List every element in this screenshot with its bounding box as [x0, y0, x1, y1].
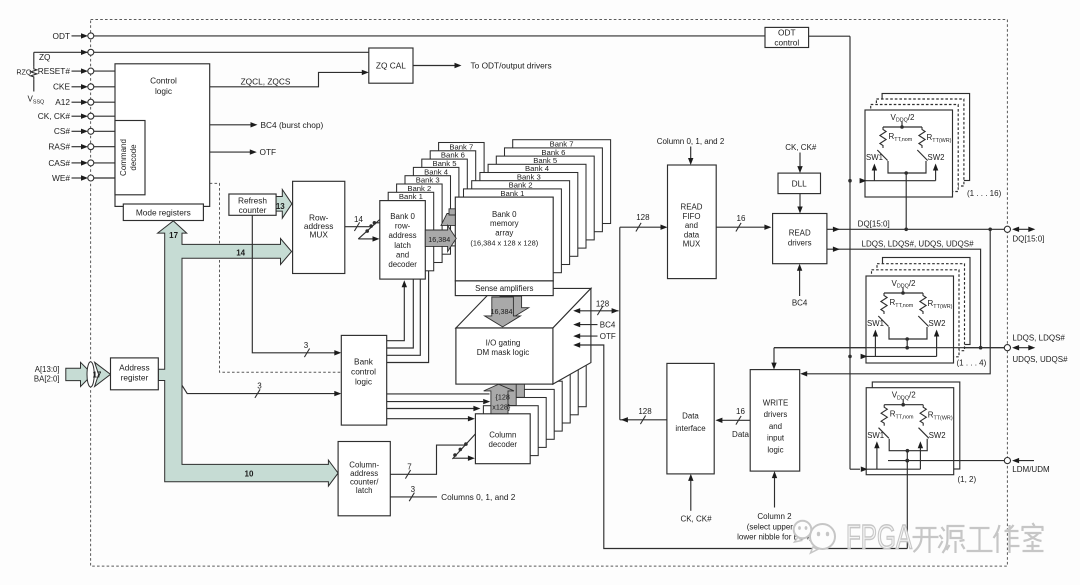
svg-text:BA[2:0]: BA[2:0] [34, 375, 60, 384]
switch SW2 [918, 316, 928, 327]
wires bank control to column decoder stack [387, 393, 490, 395]
bus label 128 at data interface [640, 416, 645, 425]
wire output BC4 burst chop [210, 124, 251, 126]
input pin RESET# [72, 70, 83, 72]
wires bank control to row-address latch stack [387, 287, 405, 341]
svg-text:SW1: SW1 [867, 319, 884, 328]
svg-text:counter: counter [239, 205, 267, 215]
input pin CK, CK# [72, 115, 83, 117]
pad LDQS UDQS [1004, 345, 1010, 351]
svg-text:MUX: MUX [683, 240, 701, 249]
bank 1 row-address latch box [388, 192, 434, 270]
svg-text:Columns 0, 1, and 2: Columns 0, 1, and 2 [441, 492, 516, 502]
bank 2 row-address latch box [397, 184, 443, 263]
svg-text:Column 2: Column 2 [757, 512, 792, 521]
termination front box [865, 110, 953, 197]
teal arrow 13 refresh to row mux [276, 190, 292, 219]
bank control logic box [341, 335, 386, 425]
I/O gating DM mask logic 3D box [456, 288, 591, 328]
svg-text:16: 16 [736, 407, 745, 416]
svg-text:CKE: CKE [53, 82, 71, 92]
switch SW1 [877, 150, 887, 161]
input pin CS# [72, 130, 83, 132]
svg-text:Column: Column [489, 430, 516, 439]
ODT enable wire into termination [866, 180, 936, 182]
bank 4 row-address latch box [413, 167, 459, 246]
SW2 control arrow [935, 170, 937, 181]
svg-text:decoder: decoder [388, 260, 417, 269]
svg-text:memory: memory [490, 219, 519, 228]
termination front box [866, 276, 954, 363]
wire ZQ CAL to ODT/output drivers [413, 65, 455, 67]
svg-text:Data: Data [682, 412, 699, 421]
bank 1 memory array box [464, 189, 562, 273]
tap DQ termination to DQ net [905, 173, 907, 229]
resistor RTT(WR) [920, 293, 926, 314]
svg-text:READ: READ [681, 203, 703, 212]
tap DQS termination to DQS net [906, 339, 908, 348]
svg-text:CS#: CS# [54, 126, 71, 136]
svg-text:CK, CK#: CK, CK# [38, 111, 71, 121]
svg-text:ZQCL, ZQCS: ZQCL, ZQCS [241, 76, 291, 86]
switch common wire [889, 327, 927, 339]
bank 3 memory array box [480, 173, 578, 257]
arrow bank control into bank 0 latch [402, 280, 407, 287]
read fifo and data mux box [668, 165, 717, 279]
termination instance stack boxes [883, 258, 971, 345]
svg-text:BC4: BC4 [600, 320, 616, 329]
bank 7 row-address latch box [439, 143, 485, 222]
bank 2 memory array box [472, 181, 570, 265]
SW1 control arrow [876, 447, 878, 469]
svg-text:LDQS, LDQS#: LDQS, LDQS# [1012, 334, 1065, 343]
grey 16384 arrow row latch to memory array [441, 214, 455, 226]
svg-text:latch: latch [394, 241, 411, 250]
svg-text:DM mask logic: DM mask logic [477, 348, 529, 357]
svg-text:control: control [351, 366, 376, 376]
DQS pad net [774, 347, 1004, 349]
svg-text:drivers: drivers [764, 410, 788, 419]
svg-text:A[13:0]: A[13:0] [35, 365, 60, 374]
svg-text:10: 10 [245, 469, 254, 478]
svg-text:3: 3 [304, 341, 309, 350]
bank 5 column decoder box [515, 373, 570, 423]
svg-text:(16,384 x 128 x 128): (16,384 x 128 x 128) [470, 238, 538, 247]
svg-text:ODT: ODT [52, 31, 70, 41]
SW2 control arrow [936, 336, 938, 357]
svg-text:control: control [774, 37, 799, 47]
bank 4 memory array box [488, 164, 586, 248]
svg-text:RAS#: RAS# [48, 142, 70, 152]
bank 3 row-address latch box [405, 176, 451, 255]
svg-text:Refresh: Refresh [238, 196, 267, 206]
wire 7 column counter to column decoders with fanout [390, 445, 466, 474]
svg-text:UDQS, UDQS#: UDQS, UDQS# [1012, 355, 1068, 364]
svg-text:SW2: SW2 [928, 153, 945, 162]
svg-text:and: and [769, 422, 782, 431]
ODT enable wire into termination [867, 355, 937, 357]
svg-text:Sense amplifiers: Sense amplifiers [475, 284, 533, 293]
svg-text:DQ[15:0]: DQ[15:0] [858, 220, 890, 229]
wire BC4 into read drivers [799, 271, 801, 297]
svg-text:ZQ: ZQ [39, 52, 51, 62]
svg-text:7: 7 [407, 462, 412, 471]
svg-text:latch: latch [356, 486, 373, 495]
resistor RTT,nom [881, 293, 887, 314]
termination instance stack box [872, 382, 960, 469]
switch SW2 [917, 150, 927, 161]
bank 4 column decoder box [507, 381, 562, 431]
grey 16384 arrows sense amps to IO gating [500, 296, 529, 319]
termination front box [866, 388, 954, 475]
svg-text:Mode registers: Mode registers [136, 208, 191, 218]
bank 0 row-address latch and decoder box [380, 201, 426, 280]
resistor RTT(WR) [919, 127, 925, 148]
column-address counter latch box [338, 442, 390, 516]
svg-text:To ODT/output drivers: To ODT/output drivers [471, 60, 552, 70]
node VDDQ center tap [902, 399, 904, 405]
svg-text:BC4: BC4 [792, 298, 808, 307]
bank 5 row-address latch box [422, 159, 468, 238]
node VDDQ center tap [901, 122, 903, 128]
bank 0 column decoder box [475, 414, 530, 464]
wire BC4 into IO gating [575, 324, 598, 326]
wire 14 row mux to bank latches with fanout [345, 226, 370, 228]
svg-text:Column 0, 1, and 2: Column 0, 1, and 2 [657, 137, 725, 146]
wire address register to bank control 3 [182, 385, 335, 393]
svg-text:and: and [685, 221, 698, 230]
write drivers and input logic box [750, 370, 800, 472]
svg-text:FIFO: FIFO [683, 212, 701, 221]
svg-text:MUX: MUX [309, 230, 328, 240]
wire refresh counter to bank control 3 [252, 215, 335, 352]
wire DM mask path IO gating to LDM pad [575, 345, 907, 549]
bank 6 column decoder box [523, 365, 578, 415]
ZQ CAL box [369, 48, 413, 83]
wire ODT control to termination column [809, 35, 850, 37]
termination instance stack boxes [882, 94, 970, 181]
SW1 control arrow [873, 170, 875, 181]
svg-text:x128}: x128} [492, 402, 511, 411]
svg-text:SW1: SW1 [866, 153, 883, 162]
DLL box [778, 173, 821, 194]
wire 16 data write drivers to data interface [718, 419, 750, 421]
switch SW1 [879, 428, 889, 439]
svg-text:OTF: OTF [600, 332, 616, 341]
svg-text:128: 128 [638, 407, 652, 416]
svg-text:Bank 1: Bank 1 [500, 189, 524, 198]
svg-text:Bank: Bank [354, 356, 374, 366]
svg-text:I/O gating: I/O gating [486, 338, 521, 347]
DQ data net [827, 228, 1005, 230]
wire output OTF [210, 151, 250, 153]
svg-text:array: array [495, 229, 513, 238]
address register box [111, 358, 159, 390]
svg-text:Data: Data [732, 430, 749, 439]
input pin ODT [72, 35, 83, 37]
ODT control box U-ODT [765, 27, 809, 47]
DQS strobe net from read drivers [827, 249, 981, 348]
svg-text:WRITE: WRITE [763, 399, 788, 408]
svg-text:DQ[15:0]: DQ[15:0] [1012, 234, 1044, 243]
SW1 control arrow [874, 336, 876, 357]
input pin CAS# [72, 162, 83, 164]
inner dashed command/address boundary [210, 183, 342, 372]
bank 6 row-address latch box [430, 151, 476, 230]
svg-text:SW2: SW2 [929, 319, 946, 328]
DQS pad net segment through termination box [774, 347, 1004, 349]
svg-text:RESET#: RESET# [38, 66, 71, 76]
wire ZQCL ZQCS to ZQ CAL [210, 72, 362, 86]
svg-text:ZQ CAL: ZQ CAL [376, 61, 406, 71]
refresh counter box [229, 194, 276, 215]
svg-text:CK, CK#: CK, CK# [680, 515, 712, 524]
svg-text:WE#: WE# [52, 173, 70, 183]
command decode box [115, 121, 145, 195]
svg-text:drivers: drivers [788, 238, 812, 247]
row-address MUX box [293, 181, 345, 273]
node VDDQ center tap [902, 288, 904, 294]
bank 5 memory array box [496, 156, 594, 240]
wire DLL to read drivers [799, 194, 801, 207]
wire DQS into write drivers [773, 348, 775, 363]
svg-text:SW1: SW1 [867, 431, 884, 440]
wire 3 columns 0 1 2 [390, 496, 437, 498]
svg-text:16,384: 16,384 [428, 235, 450, 244]
svg-text:decode: decode [129, 144, 138, 171]
svg-text:logic: logic [767, 445, 783, 454]
input pin CKE [72, 86, 83, 88]
svg-text:LDM/UDM: LDM/UDM [1012, 465, 1050, 474]
switch SW1 [878, 316, 888, 327]
svg-text:(1, 2): (1, 2) [958, 475, 977, 484]
input pin ZQ [34, 51, 369, 53]
svg-text:row-: row- [395, 222, 411, 231]
resistor RTT,nom [881, 405, 887, 426]
watermark logo chat bubbles [794, 521, 835, 553]
grey 128x128 data path arrows column decoder to IO gating [500, 368, 530, 398]
svg-text:16: 16 [737, 214, 746, 223]
svg-text:Control: Control [150, 76, 177, 86]
bank 0 memory array box [455, 197, 553, 281]
control logic box [115, 64, 210, 207]
svg-text:SW2: SW2 [929, 431, 946, 440]
svg-text:address: address [389, 231, 417, 240]
svg-text:CAS#: CAS# [48, 158, 70, 168]
svg-text:LDQS, LDQS#, UDQS, UDQS#: LDQS, LDQS#, UDQS, UDQS# [862, 239, 975, 248]
svg-text:3: 3 [257, 381, 262, 390]
svg-text:data: data [684, 230, 700, 239]
external resistor RZQ [33, 52, 35, 66]
svg-text:interface: interface [675, 424, 706, 433]
svg-text:BC4 (burst chop): BC4 (burst chop) [261, 120, 324, 130]
svg-text:(1 . . . 16): (1 . . . 16) [967, 189, 1002, 198]
input pin RAS# [72, 146, 83, 148]
svg-text:logic: logic [155, 86, 172, 96]
internal 128 bus vertical [620, 419, 667, 421]
LDM UDM pad net [888, 460, 1004, 462]
svg-text:16,384: 16,384 [491, 307, 513, 316]
svg-text:14: 14 [354, 215, 363, 224]
SW2 control arrow [919, 447, 921, 469]
bank 2 column decoder box [491, 398, 546, 448]
wire 16 read fifo to read drivers [716, 226, 764, 228]
svg-text:14: 14 [236, 248, 245, 257]
svg-text:(1 . . . 4): (1 . . . 4) [957, 359, 987, 368]
svg-text:OTF: OTF [260, 147, 277, 157]
bank 6 memory array box [505, 148, 603, 232]
svg-text:A12: A12 [55, 97, 70, 107]
outer dashed chip boundary [91, 20, 1008, 567]
sense amplifiers box [455, 281, 553, 296]
switch common wire [889, 439, 927, 451]
svg-text:Bank 0: Bank 0 [390, 212, 415, 221]
bank 1 column decoder box [483, 406, 538, 456]
input pin A12 [72, 101, 83, 103]
data interface box [667, 363, 714, 474]
svg-text:READ: READ [789, 228, 811, 237]
bank 3 column decoder box [499, 389, 554, 439]
svg-text:DLL: DLL [792, 179, 808, 189]
svg-text:RZQ: RZQ [16, 67, 32, 76]
svg-text:Bank 1: Bank 1 [399, 192, 423, 201]
watermark chinese characters [913, 528, 939, 553]
svg-text:128: 128 [596, 300, 610, 309]
svg-text:register: register [121, 373, 149, 383]
svg-text:ODT: ODT [778, 28, 796, 38]
svg-text:{128: {128 [495, 392, 509, 401]
svg-text:logic: logic [355, 376, 372, 386]
ODT enable wire into termination [867, 468, 921, 470]
wire DQ feedback into write drivers [803, 229, 990, 373]
svg-text:17: 17 [93, 370, 102, 379]
bank 7 column decoder box [531, 357, 586, 407]
switch SW2 [919, 428, 929, 439]
svg-text:decoder: decoder [489, 440, 518, 449]
resistor RTT(WR) [920, 405, 926, 426]
svg-text:Address: Address [119, 363, 149, 373]
bank 7 memory array box [513, 140, 611, 224]
pad LDM UDM input [1004, 458, 1010, 464]
svg-text:3: 3 [411, 485, 416, 494]
svg-text:128: 128 [636, 213, 650, 222]
bidirectional 128 bus IO gating [575, 310, 619, 312]
svg-text:CK, CK#: CK, CK# [785, 143, 817, 152]
resistor RTT,nom [880, 127, 886, 148]
input pin WE# [72, 177, 83, 179]
switch common wire [888, 161, 926, 173]
wire 128 bus to read fifo [620, 226, 661, 228]
mode registers box [123, 204, 203, 221]
svg-text:13: 13 [276, 202, 285, 211]
svg-text:FPGA: FPGA [846, 519, 912, 557]
svg-text:17: 17 [169, 231, 178, 240]
tap DM termination to DM net and DM mask path [906, 451, 908, 549]
svg-text:and: and [396, 250, 409, 259]
address bus teal trunk with arrows 17 14 10 [158, 221, 339, 486]
external address input arrow A BA [66, 362, 93, 386]
svg-text:Command: Command [119, 139, 128, 176]
read drivers box [773, 214, 827, 264]
wire OTF into IO gating [575, 335, 598, 337]
pad DQ[15:0] [1004, 226, 1010, 232]
svg-text:Bank 0: Bank 0 [492, 210, 517, 219]
svg-text:input: input [767, 434, 785, 443]
